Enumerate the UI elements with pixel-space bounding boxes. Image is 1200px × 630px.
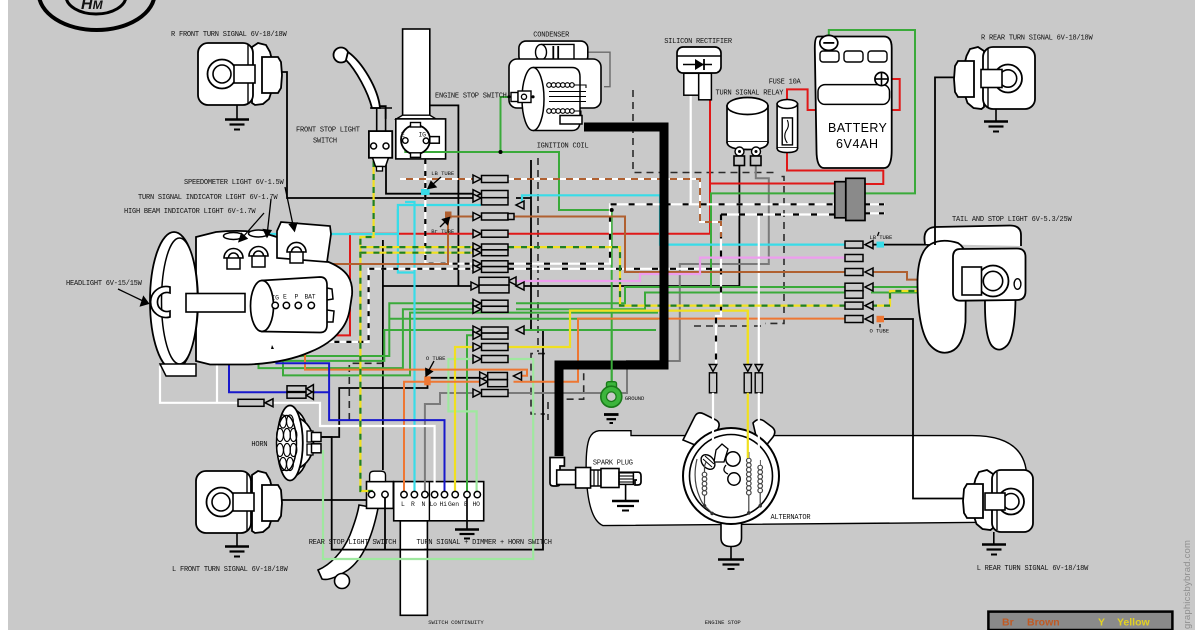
wire: black row287 to turn signal relay [383, 165, 740, 286]
spark plug [550, 458, 641, 501]
condenser [519, 41, 588, 63]
connector row233 red [473, 230, 481, 238]
wire: black/white P terminal to connector row268 [298, 269, 473, 342]
harness dashed vertical mid column [537, 158, 539, 352]
svg-text:Brown: Brown [1027, 617, 1060, 629]
svg-text:TAIL AND STOP LIGHT 6V-5.3/25W: TAIL AND STOP LIGHT 6V-5.3/25W [952, 216, 1072, 224]
svg-text:L: L [401, 501, 405, 508]
switch terminals row [368, 491, 480, 508]
connector rows 194/201 [473, 190, 481, 198]
svg-text:Br: Br [1002, 617, 1014, 629]
tail and stop light [918, 226, 1026, 353]
wire: yellow/green front stop switch down [360, 148, 373, 495]
bullet connector pair blue wire [287, 386, 306, 392]
wire: brown/white dashed row179 right [508, 179, 721, 237]
svg-text:Hi: Hi [440, 501, 448, 508]
engine stop switch [401, 123, 439, 158]
wire: red battery plus S-path to fuse [787, 79, 900, 110]
connector row305 [845, 302, 863, 309]
ground (R rear signal) [984, 122, 1008, 132]
svg-text:N: N [422, 501, 426, 508]
wire: green mid connector row303 to right column [516, 287, 711, 303]
L front turn signal lamp [196, 471, 282, 546]
engine stop switch box [396, 119, 446, 159]
junction dot coil green branch [499, 150, 503, 154]
horn [277, 406, 322, 481]
ground (below green lug) [604, 415, 619, 424]
wire: horn black down to bottom row [320, 437, 427, 550]
turn signal + dimmer + horn switch box [394, 482, 484, 521]
R front turn signal lamp [198, 43, 282, 119]
wire: white solid alternator feed [758, 215, 760, 365]
LB tube marker mid [421, 189, 430, 195]
wire: engine stop switch top black jumper [380, 105, 458, 286]
svg-text:graphicsbybrad.com: graphicsbybrad.com [1182, 540, 1193, 629]
svg-text:P: P [295, 294, 299, 301]
connector rows 247/252 yellow-green [473, 243, 481, 251]
wire: front stop switch black to connector row194 [386, 146, 473, 194]
wire: O row black to L rear turn signal [884, 319, 986, 499]
svg-text:E: E [283, 294, 287, 301]
silicon rectifier [677, 47, 721, 100]
wire: yellow connector row347 to alternator [508, 311, 748, 364]
wire: green headlight bulb row to pass-through row318 [245, 303, 658, 375]
svg-text:SWITCH CONTINUITY: SWITCH CONTINUITY [428, 619, 484, 626]
wire: cyan jog at x398 [398, 209, 415, 273]
connector LB row244 [845, 241, 863, 248]
turn signal relay [727, 98, 768, 166]
fuse 10A [777, 100, 798, 153]
wire: light green connector row359 to HO terminal [448, 359, 476, 495]
alternator feed arrows [709, 365, 762, 393]
svg-text:IGNITION COIL: IGNITION COIL [537, 143, 589, 151]
wire: green socket1 down to connector row330 [234, 265, 482, 361]
harness dashed outline near ignition coil down to fuse row [633, 90, 784, 323]
ground (spark plug) [612, 501, 639, 511]
ground (R front signal) [225, 120, 249, 130]
ground (alternator) [718, 560, 744, 570]
connector rows 263/268 black-white [473, 260, 481, 268]
svg-text:CONDENSER: CONDENSER [533, 32, 570, 40]
svg-text:TURN SIGNAL + DIMMER + HORN SW: TURN SIGNAL + DIMMER + HORN SWITCH [416, 539, 551, 547]
wire: LB row black to R rear turn signal [871, 77, 989, 244]
wire: yellow alternator feed lower [747, 393, 749, 458]
right connector column [845, 241, 873, 323]
svg-text:L REAR TURN SIGNAL 6V-18/18W: L REAR TURN SIGNAL 6V-18/18W [977, 565, 1089, 573]
svg-text:HM: HM [81, 0, 104, 13]
wire: green branch up to ignition coil connector [501, 97, 512, 152]
wire: green socket2 down to connector row309 [259, 265, 482, 368]
steering column flare [396, 115, 436, 119]
coil primary connector [511, 93, 518, 102]
wire: green battery minus loop to tail light [711, 30, 915, 287]
svg-text:HEADLIGHT 6V-15/15W: HEADLIGHT 6V-15/15W [66, 280, 143, 288]
wire: red BAT terminal up to row233 across to rectifier [311, 100, 710, 335]
svg-text:L FRONT TURN SIGNAL 6V-18/18W: L FRONT TURN SIGNAL 6V-18/18W [172, 566, 288, 574]
wire: yellow alternator feed vertical [747, 311, 749, 364]
connector row216 [473, 213, 481, 221]
headlight assembly [150, 222, 352, 376]
wire: pink mid connector to right column [508, 258, 845, 281]
connector row393 [473, 389, 481, 397]
wire: black/white IG terminal stub [274, 306, 276, 342]
svg-text:FUSE 10A: FUSE 10A [769, 79, 802, 87]
steering column upper [403, 29, 430, 116]
svg-text:REAR STOP LIGHT SWITCH: REAR STOP LIGHT SWITCH [309, 539, 397, 547]
svg-text:ALTERNATOR: ALTERNATOR [771, 514, 812, 522]
Br tube marker mid [445, 212, 452, 219]
ground (L rear signal) [982, 545, 1006, 555]
connector rows 303/309 green [473, 299, 481, 307]
connector rows 287/292 [845, 283, 863, 291]
LB tube marker right [877, 242, 885, 248]
wire: rear stop switch black down [384, 497, 386, 550]
connector row359 [473, 355, 481, 363]
front stop light switch lever [334, 48, 393, 132]
svg-text:HORN: HORN [251, 441, 267, 449]
ground (switch box E terminal) [455, 497, 479, 539]
svg-text:LB TUBE: LB TUBE [431, 170, 455, 177]
ignition coil [507, 59, 601, 131]
speedometer housing [277, 222, 331, 262]
wire: orange row381 right branch up to O row to right column [514, 319, 846, 382]
connector row258 [845, 255, 863, 262]
wire: cyan headlight socket to connector row205 [269, 205, 481, 234]
svg-text:BAT: BAT [305, 294, 316, 301]
wire: white headlight bulb to Lo terminal [160, 360, 435, 495]
wire: yellow/green row246 right to right column row305 [508, 247, 845, 306]
wire: blue headlight bulb to Hi terminal [245, 296, 445, 495]
svg-text:IG: IG [419, 132, 427, 139]
connector rows 330/335 green [473, 326, 481, 334]
indicator socket 1 [224, 233, 244, 240]
wire: brown headlight socket to Br-tube vertical to connector row216 [295, 217, 473, 265]
wire: L front turn signal black to rear stop switch [269, 499, 367, 501]
wire: white alternator feed lower right [758, 393, 760, 465]
wire: green switch E terminal up to connector row335 [467, 335, 473, 494]
engine / frame white band [586, 431, 1027, 526]
svg-text:TURN SIGNAL RELAY: TURN SIGNAL RELAY [716, 90, 785, 98]
rear stop light switch box [367, 482, 394, 509]
svg-text:O TUBE: O TUBE [870, 328, 890, 335]
rear stop switch plunger [370, 471, 386, 481]
wire: brown/white dashed row179 [400, 178, 473, 180]
connector row179 [473, 175, 481, 183]
middle connector column [238, 175, 524, 407]
wire: white rectifier lead down to row204 [690, 95, 692, 204]
junction dot green corner [610, 208, 614, 212]
wire: R front turn signal black to connector row198 [268, 72, 473, 198]
wire: red fuse bottom to 4P connector block [787, 150, 883, 184]
wire: cyan R switch wire vertical [405, 202, 415, 495]
points and cam inside alternator [726, 452, 740, 466]
wire: green right column row287 to tail light bulb [871, 286, 962, 288]
wire: green mid row330 right stub [516, 329, 656, 331]
wire: yellow/green row246 [360, 246, 473, 248]
legend box [988, 612, 1172, 630]
harness dashed near spark plug [694, 325, 765, 327]
svg-text:SWITCH: SWITCH [313, 138, 337, 146]
wire: condenser gray leads [530, 52, 610, 86]
L rear turn signal lamp [963, 470, 1033, 544]
wire: brown row216 right to right column row272 [513, 217, 845, 273]
svg-text:Br TUBE: Br TUBE [431, 228, 455, 235]
svg-text:IG: IG [272, 295, 280, 302]
svg-text:O TUBE: O TUBE [426, 355, 446, 362]
battery 6V4AH [815, 35, 892, 168]
ground (L front signal) [225, 547, 249, 557]
steering column lower [400, 521, 427, 616]
wire: gray relay terminal long path to connector row393 [508, 165, 769, 393]
left white edge strip [0, 0, 8, 630]
svg-text:BATTERY: BATTERY [828, 121, 888, 135]
connector rows 376/381 [480, 372, 488, 380]
indicator socket 3 [287, 242, 306, 252]
ground lug (green GROUND) [601, 330, 622, 407]
svg-text:ENGINE STOP SWITCH: ENGINE STOP SWITCH [435, 93, 507, 101]
main harness thick black [559, 127, 664, 456]
wire: yellow/green row253 [360, 252, 473, 254]
leader arrows [118, 177, 880, 376]
svg-text:6V4AH: 6V4AH [836, 137, 879, 151]
svg-text:R: R [411, 501, 415, 508]
front stop light switch body [369, 131, 392, 171]
wire: yellow Gen terminal to connector row347 [455, 347, 473, 495]
bullet connector white wire [238, 399, 264, 406]
svg-text:Yellow: Yellow [1117, 617, 1151, 629]
rear brake lever [318, 505, 378, 580]
wire: white alternator feed lower [712, 393, 714, 449]
wire: black row287 left vertical [382, 240, 384, 470]
wire: black/white row263 to 4P block row204 [508, 204, 835, 263]
connector row347 [473, 343, 481, 351]
harness dashed jumper near O tube [349, 363, 383, 420]
wire: green mid connector row309 jog right [516, 293, 962, 310]
svg-text:R FRONT TURN SIGNAL 6V-18/18W: R FRONT TURN SIGNAL 6V-18/18W [171, 31, 287, 39]
svg-text:HO: HO [473, 501, 481, 508]
alternator coil windings [695, 452, 762, 513]
harness dashed right of middle column [531, 354, 545, 414]
wire: green pass-through row318 [390, 318, 658, 320]
wire: cyan connector to LB row and tail section [516, 195, 845, 244]
wire: black/white stubs right of 4P block [865, 204, 885, 213]
harness dashed outline above ground [548, 361, 667, 420]
wire: black/white LB-tube line from IG switch to connector row263 [425, 159, 473, 264]
headlight bulb [151, 287, 170, 318]
alternator [683, 413, 779, 559]
HM logo [39, 0, 155, 30]
wire: light green horn to connector row359 loop [323, 359, 533, 559]
wire: green ign switch E terminal to connector row303 [286, 303, 481, 356]
wire: gray N terminal to connector row393 [425, 393, 473, 495]
svg-text:E: E [464, 501, 468, 508]
wire: brown right column row272 to tail light [871, 272, 962, 280]
svg-text:SPARK PLUG: SPARK PLUG [593, 460, 633, 468]
svg-text:LB TUBE: LB TUBE [870, 234, 894, 241]
connector arrow pink row281 [508, 277, 516, 285]
svg-text:HIGH BEAM INDICATOR LIGHT 6V-1: HIGH BEAM INDICATOR LIGHT 6V-1.7W [124, 208, 256, 216]
wire: horn black up to O-tube connector pin [320, 378, 481, 437]
wire: green engine stop E to coil and ground [405, 142, 611, 385]
R rear turn signal lamp [954, 47, 1035, 121]
wire: orange connector row381 to L terminal [404, 382, 481, 495]
wire: black row198 right side to long vertical x540 down to bottom row [424, 160, 543, 550]
svg-text:TURN SIGNAL INDICATOR LIGHT 6V: TURN SIGNAL INDICATOR LIGHT 6V-1.7W [138, 194, 278, 202]
svg-text:SILICON RECTIFIER: SILICON RECTIFIER [664, 38, 733, 46]
svg-text:ENGINE STOP: ENGINE STOP [705, 619, 742, 626]
svg-text:Lo: Lo [430, 501, 438, 508]
connector O row319 [845, 316, 863, 323]
wire: blue socket1 branch through bullet connectors [229, 310, 329, 392]
O tube marker right [877, 316, 885, 323]
right white edge strip [1195, 0, 1200, 630]
wire: orange headlight socket row to O-tube connector [305, 260, 527, 376]
svg-text:R REAR TURN SIGNAL 6V-18/18W: R REAR TURN SIGNAL 6V-18/18W [981, 35, 1093, 43]
O tube marker mid [424, 376, 431, 385]
wire: yellow/green right column to tail light [871, 291, 962, 306]
svg-text:Y: Y [1098, 617, 1105, 629]
wire: red rectifier branch to 4P connector block [710, 183, 835, 185]
svg-text:SPEEDOMETER LIGHT 6V-1.5W: SPEEDOMETER LIGHT 6V-1.5W [184, 179, 285, 187]
svg-text:E: E [401, 132, 405, 139]
connector rows 281/286 [471, 282, 479, 290]
4P connector block [835, 178, 865, 220]
svg-text:Gen: Gen [448, 501, 459, 508]
svg-text:FRONT STOP LIGHT: FRONT STOP LIGHT [296, 127, 360, 135]
svg-text:GROUND: GROUND [625, 395, 645, 402]
indicator socket 2 [249, 230, 269, 237]
connector row272 [845, 269, 863, 276]
wire: black/white row268 right to block row214 and alternator [508, 215, 835, 365]
ignition switch drum [262, 277, 327, 333]
